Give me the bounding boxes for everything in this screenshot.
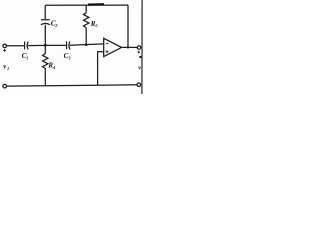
label v1 (3, 63, 9, 71)
wire: ground bus bottom (7, 85, 137, 86)
label v2 (138, 65, 141, 72)
wire: feedback vertical (127, 5, 129, 47)
plus sign at output (137, 51, 140, 54)
terminal: input top-left (3, 44, 7, 48)
capacitor C1 (25, 41, 29, 49)
capacitor C3 (67, 41, 70, 49)
label C1 (22, 51, 29, 60)
node A junction dot (44, 44, 47, 47)
wire: C3 to op-amp inverting input (70, 44, 104, 45)
terminal: bottom right (137, 83, 141, 87)
label C2 (51, 18, 58, 27)
terminal: bottom left (3, 84, 7, 88)
wire: non-inverting input to ground bus (98, 52, 104, 86)
op-amp U1 (104, 38, 122, 56)
label R5 (90, 20, 99, 28)
svg-text:4: 4 (52, 65, 56, 70)
ink speck (139, 56, 142, 58)
wire: op-amp output (122, 46, 138, 48)
resistor R5 (84, 13, 89, 28)
label R4 (47, 61, 56, 69)
svg-text:1: 1 (26, 56, 28, 61)
svg-text:2: 2 (54, 23, 58, 28)
page edge line (141, 0, 143, 94)
resistor R4 (43, 54, 48, 72)
svg-text:5: 5 (95, 23, 98, 28)
svg-text:3: 3 (67, 56, 71, 61)
resistor R4 lead continues to ground bus (wire) (44, 71, 46, 85)
resistor R4 top lead (44, 45, 46, 53)
node: output junction dot (127, 46, 129, 48)
wire: C2 bottom lead (44, 25, 46, 46)
capacitor C2 (41, 20, 50, 25)
svg-text:1: 1 (7, 66, 9, 71)
wire: C1 to node A (28, 44, 45, 46)
wire: input to C1 (7, 45, 25, 47)
wire: C2 top lead (44, 5, 46, 19)
resistor R5 top lead (85, 5, 87, 13)
resistor R5 bottom lead (85, 28, 87, 45)
svg-text:v: v (138, 65, 141, 72)
wire: thick segment on top bus (88, 3, 104, 6)
label C3 (64, 51, 72, 60)
node B junction dot (85, 43, 88, 46)
op-amp minus sign (106, 43, 109, 45)
op-amp plus sign (106, 50, 109, 53)
wire: node A to C3 (45, 44, 66, 46)
plus sign at input (3, 49, 6, 52)
terminal: output (137, 46, 141, 50)
wire: top feedback bus (45, 4, 128, 6)
